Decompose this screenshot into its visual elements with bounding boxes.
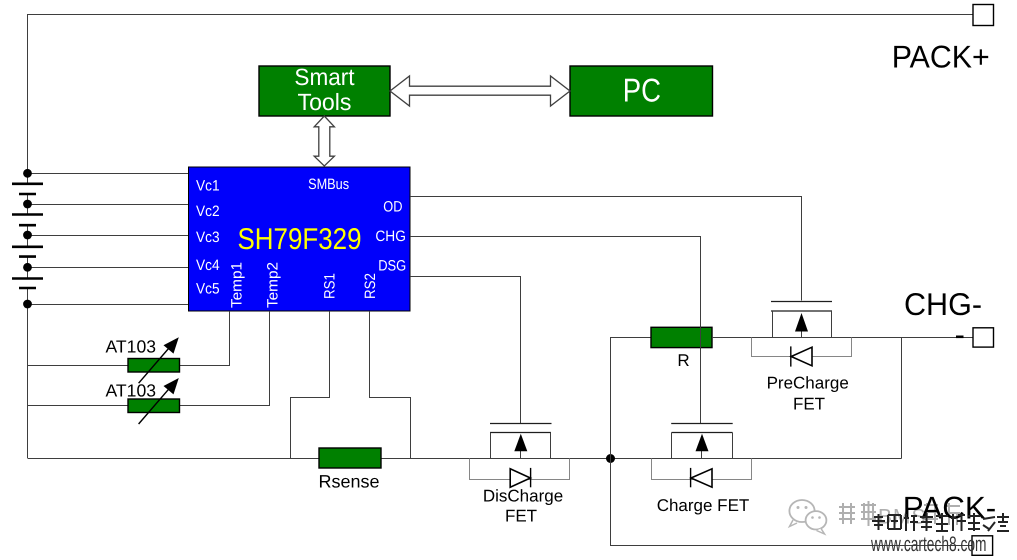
svg-text:DSG: DSG <box>378 258 406 275</box>
watermark wechat icon <box>789 500 826 534</box>
svg-text:SH79F329: SH79F329 <box>238 223 362 256</box>
svg-text:PC: PC <box>623 72 661 109</box>
label Rsense <box>318 472 379 492</box>
IC U1 SH79F329 body <box>189 167 411 311</box>
svg-text:Rsense: Rsense <box>318 472 379 492</box>
junction node pack- branch <box>606 454 615 463</box>
svg-text:FET: FET <box>505 506 537 525</box>
svg-text:www.cartech8.com: www.cartech8.com <box>870 533 986 556</box>
battery cell B2 <box>12 215 43 226</box>
svg-text:Tools: Tools <box>298 89 352 115</box>
junction node Vc1 <box>23 169 32 178</box>
wire R to CHG- <box>712 337 973 339</box>
label PACK+ <box>892 39 990 75</box>
body diode D1 <box>510 468 530 487</box>
junction node Vc2 <box>23 200 32 209</box>
wire Temp1 to thermistor RT1 <box>28 311 230 366</box>
arrow Smart Tools to PC (double headed) <box>390 76 570 106</box>
label CHG- <box>904 286 982 322</box>
svg-text:CHG-: CHG- <box>904 286 982 322</box>
svg-text:Vc4: Vc4 <box>196 257 220 274</box>
transistor Q3 PreCharge FET <box>771 302 832 338</box>
body diode D1 loop <box>470 459 570 480</box>
terminal CHG- <box>973 328 994 347</box>
svg-text:AT103: AT103 <box>106 337 157 357</box>
label DisCharge FET <box>483 486 563 525</box>
terminal PACK+ <box>973 5 994 26</box>
junction node Vc3 <box>23 231 32 240</box>
watermark url <box>870 533 986 556</box>
pin Vc1 <box>196 177 220 194</box>
label AT103 (RT2) <box>106 381 157 401</box>
label PACK- <box>903 489 997 525</box>
svg-text:R: R <box>677 351 689 370</box>
label PreCharge FET <box>767 374 849 414</box>
svg-text:PACK-: PACK- <box>903 489 997 525</box>
svg-text:PACK+: PACK+ <box>892 39 990 75</box>
body diode D2 <box>691 468 712 487</box>
wire Temp2 to thermistor RT2 <box>28 311 270 406</box>
thermistor RT1 AT103 <box>128 337 180 383</box>
wire battery stack vertical <box>27 173 29 458</box>
pin RS1 <box>322 273 339 299</box>
svg-text:OD: OD <box>383 199 402 216</box>
svg-text:FET: FET <box>793 395 825 414</box>
pin Temp2 <box>265 262 282 308</box>
pin CHG <box>375 228 406 245</box>
wire to PACK- terminal <box>611 459 973 546</box>
thermistor RT2 AT103 <box>128 378 180 424</box>
wire RS2 kelvin <box>370 311 411 459</box>
pin SMBus <box>308 176 349 193</box>
svg-text:Vc1: Vc1 <box>196 177 220 194</box>
battery cell B1 <box>12 184 43 194</box>
box Smart Tools <box>259 64 390 116</box>
junction node Vc5 <box>23 300 32 309</box>
wire main negative rail <box>28 458 902 460</box>
pin Vc3 <box>196 229 220 246</box>
battery cell B4 <box>12 279 43 289</box>
label Charge FET <box>657 496 750 515</box>
wire Vc1 <box>28 173 190 175</box>
wire Vc2 <box>28 204 190 206</box>
pin Vc4 <box>196 257 220 274</box>
wire DSG to DisCharge gate <box>410 277 521 424</box>
wire CHG- branch down to main rail <box>901 338 903 459</box>
wire PACK+ top rail <box>28 15 974 174</box>
pin Vc2 <box>196 203 220 220</box>
svg-text:Vc5: Vc5 <box>196 281 220 298</box>
body diode D2 loop <box>652 459 752 480</box>
svg-text:Temp1: Temp1 <box>229 262 246 308</box>
terminal PACK- <box>972 536 993 556</box>
body diode D3 <box>791 346 812 366</box>
svg-text:DisCharge: DisCharge <box>483 486 563 505</box>
svg-text:CHG: CHG <box>375 228 406 245</box>
svg-text:RS2: RS2 <box>362 273 379 299</box>
wire Vc5 <box>28 304 190 306</box>
svg-text:Smart: Smart <box>294 64 355 90</box>
watermark dark calligraphy line <box>872 513 1009 531</box>
transistor Q1 DisCharge FET <box>490 424 552 459</box>
pin DSG <box>378 258 406 275</box>
wire OD to PreCharge gate <box>410 197 802 301</box>
terminal CHG- tick <box>956 335 964 338</box>
resistor R <box>651 327 712 347</box>
watermark gray text <box>839 501 960 529</box>
pin Temp1 <box>229 262 246 308</box>
svg-text:PreCharge: PreCharge <box>767 374 849 393</box>
wire CHG to Charge gate <box>410 237 701 424</box>
arrow SMBus to Smart Tools (double headed) <box>314 116 334 166</box>
pin RS2 <box>362 273 379 299</box>
box PC <box>570 66 713 116</box>
junction node Vc4 <box>23 263 32 272</box>
svg-text:Vc3: Vc3 <box>196 229 220 246</box>
svg-text:Charge FET: Charge FET <box>657 496 750 515</box>
battery cell B3 <box>12 247 43 257</box>
label AT103 (RT1) <box>106 337 157 357</box>
resistor Rsense <box>319 448 381 468</box>
body diode D3 loop <box>752 338 852 357</box>
transistor Q2 Charge FET <box>671 424 733 459</box>
svg-text:Vc2: Vc2 <box>196 203 220 220</box>
svg-text:RS1: RS1 <box>322 273 339 299</box>
wire CHG crossing R <box>700 327 702 349</box>
label R <box>677 351 689 370</box>
wire Vc3 <box>28 235 190 237</box>
pin Vc5 <box>196 281 220 298</box>
svg-text:AT103: AT103 <box>106 381 157 401</box>
wire Vc4 <box>28 267 190 269</box>
wire RS1 kelvin <box>291 311 330 459</box>
pin OD <box>383 199 402 216</box>
svg-text:Temp2: Temp2 <box>265 262 282 308</box>
wire R to main rail <box>611 338 652 459</box>
svg-text:SMBus: SMBus <box>308 176 349 193</box>
